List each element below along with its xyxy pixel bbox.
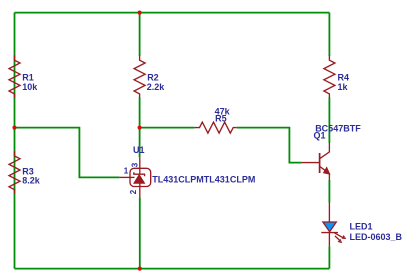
emission arrow 1 [335,233,343,238]
wire left rail [14,13,16,269]
junction dot node A [12,126,16,130]
svg-text:1: 1 [124,167,129,176]
LED LED1 (LED-0603_B) [321,203,346,247]
body box [130,168,151,186]
emitter arrowhead [323,167,329,174]
base bar [319,153,321,173]
svg-text:10k: 10k [22,82,38,92]
base pin [302,162,320,164]
pin 3 lead [139,158,141,169]
resistor R1 [9,55,20,97]
svg-text:Q1: Q1 [314,131,326,141]
collector [320,143,329,158]
resistor R5 [195,122,237,133]
svg-text:LED-0603_B: LED-0603_B [350,232,403,242]
svg-text:U1: U1 [133,145,145,155]
anode lead [328,203,330,222]
resistor R4 [324,55,335,97]
wire middle vertical upper (top rail to R2) [139,13,141,56]
svg-text:R5: R5 [215,113,227,123]
cathode bar [321,232,338,234]
pin 1 lead [120,176,135,178]
wire top rail [15,12,330,14]
cathode vertical inside [139,168,141,174]
resistor R2 [134,55,145,97]
svg-text:2.2k: 2.2k [147,82,166,92]
wire middle vertical lower (U1 to bottom rail) [139,197,141,268]
wire node B to R5 [140,127,195,129]
svg-text:1k: 1k [338,82,349,92]
junction dot top (node at 140,13) [138,11,142,15]
junction dot bottom [138,267,142,271]
transistor Q1 [302,143,330,180]
emission arrow 2 [335,236,339,240]
anode triangle [134,175,145,184]
resistor R3 [9,151,20,193]
svg-text:TL431CLPMTL431CLPM: TL431CLPMTL431CLPM [152,174,255,184]
wire right vertical upper (top rail to R4) [328,13,330,56]
svg-text:2: 2 [129,189,138,194]
svg-text:LED1: LED1 [350,221,373,231]
wire right vertical (Q1 emitter to LED) [328,180,330,203]
wire node A to U1 pin1 [15,128,120,178]
junction dot node B [138,126,142,130]
pin 2 lead [139,187,141,198]
cathode lead [328,233,330,247]
cathode bar with zener hooks [134,172,145,176]
wire R5 to Q1 base [237,128,302,163]
LED triangle [323,222,336,232]
emitter [320,167,329,180]
svg-text:3: 3 [131,162,140,167]
wire right vertical (R4 to Q1 collector) [328,97,330,143]
wire right vertical lower (LED to bottom rail) [328,246,330,268]
wire bottom rail [15,268,330,270]
wire middle vertical (R2 to U1) [139,97,141,157]
svg-text:8.2k: 8.2k [22,176,41,186]
shunt regulator U1 (TL431) [120,158,151,198]
